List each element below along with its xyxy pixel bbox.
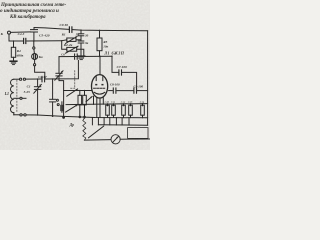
wire <box>35 66 45 79</box>
resistor R7 <box>84 90 86 95</box>
contact <box>34 64 36 66</box>
potentiometer R2 <box>62 41 67 50</box>
wire <box>14 78 20 80</box>
variable capacitor C1 <box>37 79 39 87</box>
capacitor C3a <box>52 79 54 99</box>
wire right edge down <box>147 31 149 125</box>
quartz Кв <box>32 54 38 60</box>
resistor R6 <box>79 90 81 95</box>
capacitor plates <box>60 105 62 110</box>
coil bottom wire <box>13 113 15 115</box>
wire grid to tube top <box>99 56 101 74</box>
meter <box>111 135 120 144</box>
wire <box>11 31 31 34</box>
coil former dashed <box>16 80 18 113</box>
switch bar <box>61 102 63 113</box>
contact <box>33 47 35 49</box>
wiper arrow <box>86 97 92 102</box>
capacitor C2 <box>41 76 43 81</box>
capacitor C5 <box>31 31 38 33</box>
wire terminal drop <box>9 34 23 41</box>
choke zigzag <box>83 118 86 140</box>
wire <box>34 60 36 64</box>
filter row element 4 <box>130 104 132 106</box>
wire <box>27 40 62 42</box>
ground <box>78 55 85 57</box>
tube Л1 envelope <box>92 75 108 98</box>
capacitor C9 <box>68 27 70 32</box>
potentiometer R1 <box>62 39 67 42</box>
wire <box>138 90 148 92</box>
capacitor C8 <box>112 88 114 93</box>
wire C5 down <box>33 32 35 41</box>
shield dashed <box>71 71 75 89</box>
switch contact <box>56 99 58 101</box>
socket contacts bottom <box>20 114 22 116</box>
filter row element 2 <box>113 104 115 106</box>
wire <box>120 138 150 140</box>
wire <box>26 78 42 80</box>
wire <box>123 72 137 90</box>
anode wire <box>112 56 118 72</box>
diagonal wire <box>89 126 104 138</box>
capacitor C10 <box>78 33 84 35</box>
switch contact <box>57 104 59 106</box>
wire <box>77 49 84 56</box>
heater wire <box>66 104 148 105</box>
wire <box>34 28 69 30</box>
ground <box>10 60 17 62</box>
coil tap wire <box>14 97 20 99</box>
terminal X1 <box>8 31 11 34</box>
capacitor C6 <box>74 54 76 59</box>
tube grids <box>95 84 97 86</box>
title caption text <box>0 3 66 20</box>
wire <box>117 90 133 92</box>
wire <box>58 57 60 67</box>
tube pins <box>93 96 95 104</box>
coupling arrow <box>67 89 78 96</box>
tube cathode <box>94 92 105 94</box>
capacitor C11 <box>78 40 84 42</box>
switch lever arrow <box>66 105 78 112</box>
resistor R5 <box>99 30 101 38</box>
battery box <box>128 128 148 139</box>
tiny value labels <box>105 101 145 104</box>
junction dots <box>13 29 138 118</box>
quartz crystal branch wire <box>33 41 35 47</box>
cathode bus <box>14 115 148 118</box>
decoupling stack: wire <box>80 30 82 34</box>
grid line wire <box>59 55 112 57</box>
bus drop wires <box>91 118 93 125</box>
wire <box>73 30 148 31</box>
filter row element 1 <box>107 104 109 106</box>
wire <box>46 60 79 79</box>
meter wire <box>84 139 111 142</box>
wire <box>33 49 36 54</box>
capacitor C7 <box>118 70 120 75</box>
capacitor C4 <box>23 38 25 43</box>
filter row element 5 <box>142 104 144 106</box>
socket contacts <box>20 78 22 80</box>
filter row element 3 <box>123 104 125 106</box>
screen wire <box>64 90 92 92</box>
resistor R4 <box>13 41 15 47</box>
tube anodes <box>95 77 97 81</box>
capacitor C9b <box>133 88 135 93</box>
trimmer capacitor C3 <box>58 66 60 73</box>
coil tap contact <box>20 97 22 99</box>
lower bus <box>98 124 147 126</box>
